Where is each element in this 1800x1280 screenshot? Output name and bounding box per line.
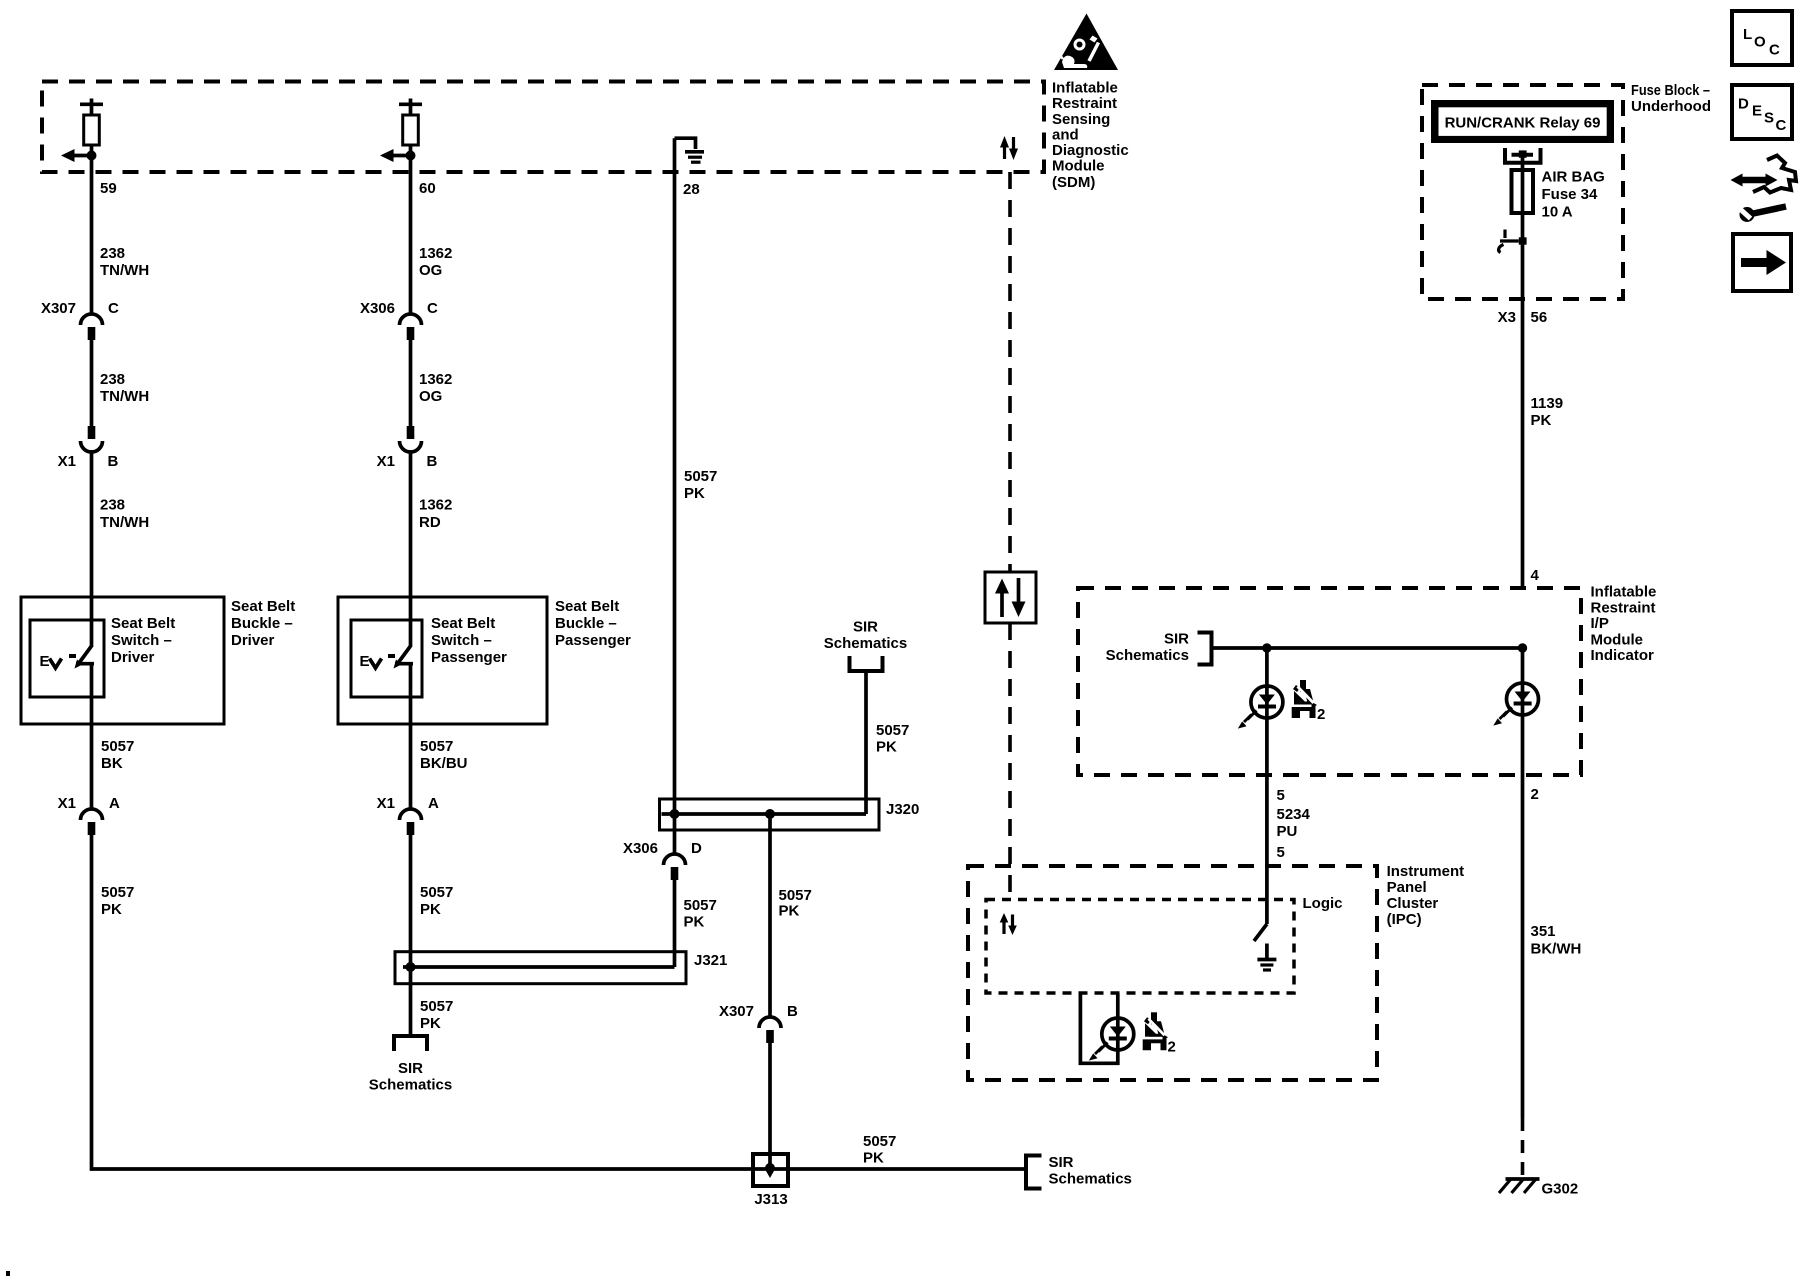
svg-text:1139: 1139 bbox=[1531, 395, 1564, 412]
troubleshooting wrench icon bbox=[1731, 156, 1797, 223]
svg-text:C: C bbox=[427, 300, 438, 317]
off-page connector to SIR schematics (right of J313) bbox=[1026, 1156, 1042, 1189]
svg-text:2: 2 bbox=[1531, 786, 1539, 803]
svg-text:Seat Belt: Seat Belt bbox=[555, 598, 619, 615]
svg-text:Schematics: Schematics bbox=[369, 1077, 452, 1094]
svg-text:PK: PK bbox=[101, 901, 122, 918]
svg-text:I/P: I/P bbox=[1591, 615, 1609, 632]
connector X1 pin A passenger bbox=[377, 795, 439, 835]
svg-text:S: S bbox=[1764, 110, 1774, 127]
wire 5234 PU (indicator to IPC logic) bbox=[1265, 775, 1269, 924]
wire 5057 PK (X306 D to J321) bbox=[673, 880, 677, 967]
svg-text:BK/WH: BK/WH bbox=[1531, 941, 1582, 958]
svg-text:J321: J321 bbox=[694, 952, 727, 969]
dashed wire to G302 bbox=[1521, 1118, 1525, 1177]
svg-text:5057: 5057 bbox=[420, 738, 453, 755]
wire 1362 RD (X1 B to passenger switch) bbox=[409, 450, 413, 647]
SDM module dashed box bbox=[42, 82, 1044, 173]
svg-text:1362: 1362 bbox=[419, 245, 452, 262]
svg-text:TN/WH: TN/WH bbox=[100, 388, 149, 405]
Inflatable Restraint I/P Module Indicator dashed box bbox=[1078, 588, 1581, 775]
seat belt icon (IPC) bbox=[1142, 1012, 1168, 1050]
forward reference arrow box bbox=[1733, 234, 1791, 291]
serial data bus symbol box bbox=[985, 572, 1036, 623]
off-page connector to SIR schematics (above J320) bbox=[850, 656, 883, 671]
airbag warning triangle icon bbox=[1054, 14, 1118, 71]
svg-text:B: B bbox=[427, 453, 438, 470]
label: Seat Belt Switch - Driver bbox=[111, 615, 175, 666]
svg-text:BK/BU: BK/BU bbox=[420, 755, 468, 772]
SDM passenger-buckle sense resistor bbox=[399, 99, 422, 158]
svg-text:10 A: 10 A bbox=[1542, 204, 1573, 221]
svg-text:Underhood: Underhood bbox=[1631, 98, 1711, 115]
svg-text:(SDM): (SDM) bbox=[1052, 174, 1095, 191]
SDM passenger output arrow bbox=[380, 149, 411, 162]
svg-text:SIR: SIR bbox=[853, 619, 878, 636]
wire 5057 PK (SIR schematics to J320) bbox=[864, 672, 868, 814]
svg-text:Inflatable: Inflatable bbox=[1052, 79, 1118, 96]
svg-text:5: 5 bbox=[1277, 787, 1285, 804]
seat belt switch passenger symbol bbox=[360, 646, 414, 670]
IPC logic switch bbox=[1254, 924, 1267, 941]
IPC lamp loop wire bbox=[1080, 994, 1117, 1064]
svg-text:1362: 1362 bbox=[419, 497, 452, 514]
svg-text:X1: X1 bbox=[377, 795, 395, 812]
svg-text:D: D bbox=[691, 840, 702, 857]
splice J321 bbox=[395, 952, 727, 984]
svg-text:L: L bbox=[1743, 26, 1752, 43]
indicator LED2 bbox=[1493, 683, 1538, 726]
svg-text:Module: Module bbox=[1052, 158, 1105, 175]
svg-text:OG: OG bbox=[419, 262, 442, 279]
svg-text:PK: PK bbox=[876, 739, 897, 756]
SDM internal ground bbox=[675, 138, 705, 162]
svg-text:Instrument: Instrument bbox=[1387, 863, 1465, 880]
seat belt switch driver symbol bbox=[40, 646, 95, 670]
svg-text:X306: X306 bbox=[360, 300, 395, 317]
off-page connector from SIR schematics (indicator box) bbox=[1198, 633, 1212, 665]
connector X306 pin D bbox=[623, 840, 702, 880]
svg-text:C: C bbox=[1769, 42, 1780, 59]
svg-text:Panel: Panel bbox=[1387, 879, 1427, 896]
svg-text:Seat Belt: Seat Belt bbox=[111, 615, 175, 632]
svg-text:Driver: Driver bbox=[111, 649, 155, 666]
svg-text:5057: 5057 bbox=[779, 887, 812, 904]
label AIR BAG Fuse 34 10 A bbox=[1542, 169, 1605, 221]
svg-text:PK: PK bbox=[420, 1015, 441, 1032]
svg-text:D: D bbox=[1738, 96, 1749, 113]
svg-text:PK: PK bbox=[684, 914, 705, 931]
LOC legend box bbox=[1732, 11, 1792, 65]
SDM serial data dashed wire (upper) bbox=[1008, 172, 1012, 572]
IPC indicator LED3 bbox=[1089, 1018, 1134, 1061]
splice J313 bbox=[753, 1154, 788, 1208]
svg-text:Restraint: Restraint bbox=[1591, 600, 1656, 617]
wire 5057 PK (SDM pin 28 to X306 D) bbox=[673, 138, 677, 855]
svg-text:PK: PK bbox=[684, 485, 705, 502]
svg-text:A: A bbox=[109, 795, 120, 812]
svg-text:Seat Belt: Seat Belt bbox=[231, 598, 295, 615]
junction dot LED1 bbox=[1262, 643, 1271, 652]
svg-text:5057: 5057 bbox=[101, 884, 134, 901]
wire 5057 PK (X1 A to J313) bbox=[92, 835, 1027, 1169]
svg-text:5057: 5057 bbox=[420, 998, 453, 1015]
svg-text:B: B bbox=[108, 453, 119, 470]
junction dot LED2 bbox=[1518, 643, 1527, 652]
svg-text:60: 60 bbox=[419, 180, 436, 197]
label: Seat Belt Buckle - Passenger bbox=[555, 598, 631, 649]
svg-text:TN/WH: TN/WH bbox=[100, 262, 149, 279]
SDM driver output arrow bbox=[61, 149, 92, 162]
svg-text:Driver: Driver bbox=[231, 632, 275, 649]
wire (relay to indicator box) bbox=[1521, 157, 1525, 588]
seat belt buckle driver outer box bbox=[21, 597, 224, 724]
svg-text:Buckle –: Buckle – bbox=[231, 615, 293, 632]
relay contact symbol bbox=[1505, 148, 1541, 163]
svg-text:X1: X1 bbox=[58, 453, 76, 470]
svg-text:Fuse 34: Fuse 34 bbox=[1542, 186, 1599, 203]
wire 351 BK/WH (indicator to G302) bbox=[1521, 775, 1525, 1118]
svg-text:351: 351 bbox=[1531, 923, 1556, 940]
SDM serial data dashed wire (lower) bbox=[1008, 623, 1012, 899]
svg-text:Indicator: Indicator bbox=[1591, 647, 1655, 664]
svg-text:X307: X307 bbox=[41, 300, 76, 317]
svg-text:Schematics: Schematics bbox=[824, 635, 907, 652]
IPC logic ground bbox=[1257, 944, 1276, 971]
svg-text:5057: 5057 bbox=[863, 1133, 896, 1150]
svg-text:4: 4 bbox=[1531, 567, 1540, 584]
svg-text:C: C bbox=[108, 300, 119, 317]
svg-text:28: 28 bbox=[683, 181, 700, 198]
svg-text:X306: X306 bbox=[623, 840, 658, 857]
svg-text:Passenger: Passenger bbox=[431, 649, 507, 666]
seat belt buckle passenger outer box bbox=[338, 597, 547, 724]
svg-text:SIR: SIR bbox=[1049, 1154, 1074, 1171]
svg-text:PK: PK bbox=[420, 901, 441, 918]
label: Instrument Panel Cluster (IPC) bbox=[1387, 863, 1465, 928]
svg-text:238: 238 bbox=[100, 497, 125, 514]
svg-text:OG: OG bbox=[419, 388, 442, 405]
label: Seat Belt Buckle - Driver bbox=[231, 598, 295, 649]
svg-text:Fuse Block –: Fuse Block – bbox=[1631, 82, 1710, 99]
connector X1 pin A driver bbox=[58, 795, 120, 835]
connector X1 pin B passenger bbox=[377, 426, 438, 470]
svg-text:Schematics: Schematics bbox=[1106, 647, 1189, 664]
wire through indicator LED2 bbox=[1521, 648, 1525, 775]
IPC serial data arrows bbox=[1000, 913, 1017, 935]
svg-text:SIR: SIR bbox=[1164, 631, 1189, 648]
svg-text:E: E bbox=[40, 653, 50, 670]
wire 5057 PK (X307 B to J313) bbox=[768, 1043, 772, 1169]
svg-text:56: 56 bbox=[1531, 309, 1548, 326]
svg-text:E: E bbox=[360, 653, 370, 670]
junction dot pin 59 bbox=[87, 151, 97, 161]
svg-text:PK: PK bbox=[863, 1150, 884, 1167]
svg-text:5057: 5057 bbox=[101, 738, 134, 755]
svg-text:Inflatable: Inflatable bbox=[1591, 584, 1657, 601]
SDM serial data arrows bbox=[1000, 136, 1018, 160]
svg-text:Buckle –: Buckle – bbox=[555, 615, 617, 632]
svg-text:J313: J313 bbox=[754, 1191, 787, 1208]
seat belt switch driver inner box bbox=[30, 620, 104, 697]
svg-text:B: B bbox=[787, 1003, 798, 1020]
svg-text:J320: J320 bbox=[886, 801, 919, 818]
wire 5057 BK/BU (passenger switch to X1 A) bbox=[409, 664, 413, 810]
svg-text:5: 5 bbox=[1277, 844, 1285, 861]
page speck bbox=[6, 1271, 10, 1276]
fuse AIR BAG Fuse 34 10 A bbox=[1512, 170, 1534, 213]
svg-text:5057: 5057 bbox=[420, 884, 453, 901]
Fuse Block Underhood dashed box bbox=[1422, 85, 1623, 299]
junction dot pin 60 bbox=[406, 151, 416, 161]
label: Inflatable Restraint Sensing and Diagnostic Module (SDM) bbox=[1052, 79, 1129, 191]
svg-text:5057: 5057 bbox=[684, 897, 717, 914]
svg-text:59: 59 bbox=[100, 180, 117, 197]
wire 1362 OG (pin 60 to X306 C) bbox=[409, 156, 413, 315]
connector X306 pin C bbox=[360, 300, 438, 340]
wire (SIR schematics to indicator lamps) bbox=[1213, 646, 1523, 650]
wire 1362 OG (X306 C to X1 B) bbox=[409, 340, 413, 427]
svg-text:Schematics: Schematics bbox=[1049, 1171, 1132, 1188]
svg-text:X1: X1 bbox=[58, 795, 76, 812]
label: Seat Belt Switch - Passenger bbox=[431, 615, 507, 666]
seat belt icon (indicator) bbox=[1291, 680, 1317, 718]
wire 238 TN/WH (pin 59 to X307 C) bbox=[90, 156, 94, 315]
connector X1 pin B driver bbox=[58, 426, 119, 470]
connector X307 pin C bbox=[41, 300, 119, 340]
svg-text:1362: 1362 bbox=[419, 371, 452, 388]
svg-text:SIR: SIR bbox=[398, 1060, 423, 1077]
svg-text:X3: X3 bbox=[1498, 309, 1516, 326]
wire 238 TN/WH (X1 B to driver switch) bbox=[90, 450, 94, 647]
svg-text:2: 2 bbox=[1168, 1039, 1176, 1056]
svg-text:(IPC): (IPC) bbox=[1387, 911, 1422, 928]
connector X307 pin B bbox=[719, 1003, 798, 1043]
SDM driver-buckle sense resistor bbox=[80, 99, 103, 158]
svg-text:PK: PK bbox=[779, 903, 800, 920]
svg-text:5057: 5057 bbox=[684, 468, 717, 485]
svg-text:TN/WH: TN/WH bbox=[100, 514, 149, 531]
seat belt switch passenger inner box bbox=[351, 620, 422, 697]
splice J320 bbox=[660, 799, 920, 830]
svg-text:Restraint: Restraint bbox=[1052, 95, 1117, 112]
svg-text:5234: 5234 bbox=[1277, 806, 1311, 823]
svg-text:Switch –: Switch – bbox=[431, 632, 492, 649]
svg-text:BK: BK bbox=[101, 755, 123, 772]
indicator LED1 bbox=[1238, 686, 1283, 729]
svg-text:RUN/CRANK Relay 69: RUN/CRANK Relay 69 bbox=[1445, 115, 1601, 132]
svg-text:Seat Belt: Seat Belt bbox=[431, 615, 495, 632]
wire through indicator LED1 bbox=[1265, 648, 1269, 775]
RUN/CRANK Relay 69 block bbox=[1431, 100, 1614, 143]
junction dot on J320 (ground wire) bbox=[670, 809, 680, 819]
wire 5057 BK (driver switch to X1 A) bbox=[90, 664, 94, 810]
svg-text:Cluster: Cluster bbox=[1387, 895, 1439, 912]
svg-text:Switch –: Switch – bbox=[111, 632, 172, 649]
svg-text:O: O bbox=[1754, 34, 1766, 51]
svg-text:C: C bbox=[1776, 117, 1787, 134]
svg-text:and: and bbox=[1052, 126, 1079, 143]
IPC logic dashed box bbox=[986, 900, 1294, 994]
wire 5057 PK (X1 A passenger to SIR schematics) bbox=[409, 835, 413, 1035]
svg-text:Module: Module bbox=[1591, 631, 1644, 648]
wire 238 TN/WH (X307 C to X1 B) bbox=[90, 340, 94, 427]
svg-text:X307: X307 bbox=[719, 1003, 754, 1020]
ground G302 bbox=[1499, 1179, 1578, 1198]
svg-text:238: 238 bbox=[100, 245, 125, 262]
svg-text:2: 2 bbox=[1317, 706, 1325, 723]
svg-text:PK: PK bbox=[1531, 412, 1552, 429]
svg-text:X1: X1 bbox=[377, 453, 395, 470]
wire 5057 PK (J320 to X307 B) bbox=[768, 814, 772, 1018]
Instrument Panel Cluster dashed box bbox=[968, 866, 1377, 1080]
svg-text:E: E bbox=[1752, 103, 1762, 120]
svg-text:RD: RD bbox=[419, 514, 441, 531]
svg-text:Passenger: Passenger bbox=[555, 632, 631, 649]
label: Inflatable Restraint I/P Module Indicator bbox=[1591, 584, 1657, 665]
svg-text:238: 238 bbox=[100, 371, 125, 388]
relay switch contact bbox=[1499, 230, 1527, 253]
svg-text:5057: 5057 bbox=[876, 722, 909, 739]
DESC legend box bbox=[1732, 85, 1792, 139]
svg-text:AIR BAG: AIR BAG bbox=[1542, 169, 1605, 186]
svg-text:A: A bbox=[428, 795, 439, 812]
svg-text:Logic: Logic bbox=[1303, 895, 1343, 912]
svg-text:PU: PU bbox=[1277, 823, 1298, 840]
off-page connector to SIR schematics (below J321) bbox=[394, 1036, 427, 1051]
svg-text:G302: G302 bbox=[1542, 1181, 1579, 1198]
